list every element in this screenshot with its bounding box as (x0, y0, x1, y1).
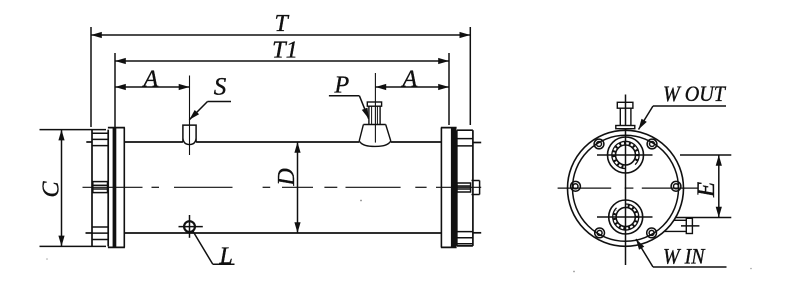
bolt hole lower right (647, 228, 657, 238)
leader W IN (636, 239, 727, 267)
right tube sheet (451, 128, 457, 248)
right cover stub (472, 181, 480, 195)
dimension A right (375, 86, 449, 88)
bolt hole upper right (647, 139, 657, 149)
svg-text:T: T (275, 11, 290, 37)
left bonnet outline (92, 130, 108, 247)
dimension T1 (115, 53, 449, 127)
svg-text:E: E (693, 182, 720, 198)
end view inner circle (573, 135, 679, 241)
leader P (329, 96, 369, 119)
nozzle S (183, 125, 196, 144)
bolt hole mid left (571, 181, 581, 191)
end view vertical centerline (625, 95, 627, 266)
shell top line (124, 141, 441, 143)
leader W OUT (639, 106, 727, 130)
left shell top tick (86, 141, 92, 143)
right top bolt stripes (457, 139, 473, 146)
lower port W IN (609, 200, 643, 234)
svg-text:D: D (274, 168, 300, 186)
dimension E (676, 155, 731, 218)
bolt hole mid right (671, 181, 681, 191)
left C extension bottom / flange bottom line (40, 245, 107, 247)
svg-text:T1: T1 (272, 38, 298, 64)
nozzle P centerline (374, 73, 376, 143)
dimension T (91, 27, 470, 127)
scan speckles (46, 200, 752, 273)
svg-text:S: S (214, 74, 227, 101)
svg-text:P: P (334, 73, 350, 99)
shell bottom line (124, 232, 441, 234)
left C extension top / flange top line (40, 129, 107, 131)
upper port crosshair (597, 154, 653, 156)
end view outer circle (568, 130, 684, 246)
right bonnet outline (457, 130, 473, 246)
right shell top tick (473, 142, 481, 144)
nozzle S centerline (189, 76, 191, 156)
dimension A left (115, 86, 190, 88)
svg-text:L: L (219, 244, 233, 270)
end view horizontal centerline (558, 187, 698, 189)
upper port W OUT (608, 137, 644, 173)
left bottom bolt stripes (92, 227, 108, 240)
svg-text:W IN: W IN (663, 244, 706, 269)
bolt hole upper left (594, 139, 604, 149)
left mid partition box (93, 182, 108, 193)
svg-text:A: A (142, 67, 159, 93)
dimension C (61, 130, 63, 247)
leader L (193, 231, 235, 264)
shell centerline (83, 186, 482, 188)
right bottom bolt stripes (457, 232, 473, 244)
svg-text:C: C (39, 181, 65, 198)
top nozzle of end view (616, 102, 635, 128)
leader S (189, 102, 231, 120)
side nozzle of end view (664, 218, 699, 233)
left shell bottom tick (86, 232, 93, 234)
lower port crosshair (597, 216, 653, 218)
dimension D (297, 142, 299, 233)
right mid partition box (457, 183, 471, 192)
svg-text:A: A (401, 67, 418, 93)
svg-text:W OUT: W OUT (663, 81, 727, 106)
left plate stack edges (108, 128, 125, 248)
left top bolt stripes (92, 133, 108, 145)
nozzle P (359, 102, 391, 146)
left tube sheet (113, 128, 117, 248)
right plate stack (441, 128, 457, 248)
drain L crosshair (179, 215, 203, 238)
bolt hole lower left (595, 228, 605, 238)
arrowheads (58, 32, 722, 250)
right shell bottom tick (473, 232, 481, 234)
drain L (184, 221, 195, 232)
